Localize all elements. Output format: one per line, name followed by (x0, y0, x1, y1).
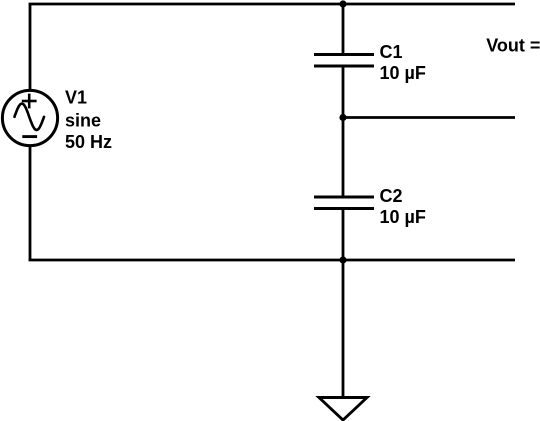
wire C1 to node A to C2 (342, 66, 345, 197)
wire left vertical lower (V1 - terminal to bottom rail) (29, 145, 32, 261)
node junction dot top (343,4) (339, 0, 346, 7)
svg-text:C2: C2 (380, 186, 403, 206)
ground symbol (319, 398, 367, 421)
node junction dot bottom (343,260) (339, 256, 346, 263)
capacitor C2 bottom plate (314, 207, 374, 210)
svg-text:10 µF: 10 µF (380, 207, 426, 227)
wire bottom horizontal (node bottom: V1- to C2 bottom to right) (29, 259, 515, 262)
svg-text:C1: C1 (380, 42, 403, 62)
svg-text:10 µF: 10 µF (380, 63, 426, 83)
wire left vertical upper (V1 + terminal to top rail) (29, 4, 32, 91)
svg-text:V1: V1 (65, 88, 87, 108)
svg-text:Vout =: Vout = (486, 36, 540, 56)
wire capacitor branch upper (top rail to C1) (342, 4, 345, 54)
V1 minus sign (22, 135, 37, 138)
voltage source V1 circle body (2, 90, 57, 145)
node junction dot A (343,117.5) (339, 114, 346, 121)
V1 sine waveform symbol (15, 104, 45, 130)
wire middle horizontal (node A: C1/C2 midpoint to right) (343, 116, 515, 119)
capacitor C1 bottom plate (314, 65, 374, 68)
V1 plus sign (22, 94, 37, 109)
capacitor C1 top plate (314, 53, 374, 56)
svg-text:sine: sine (65, 111, 101, 131)
wire top horizontal (node top: V1+ to C1 to Vout) (29, 3, 515, 6)
wire C2 bottom through bottom rail to ground (342, 209, 345, 398)
svg-text:50 Hz: 50 Hz (65, 132, 112, 152)
capacitor C2 top plate (314, 196, 374, 199)
